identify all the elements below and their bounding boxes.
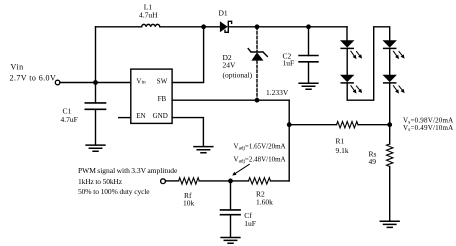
svg-text:GND: GND — [153, 112, 168, 120]
svg-text:1.60k: 1.60k — [256, 197, 273, 206]
capacitor C2 — [283, 27, 318, 83]
wire between LEDs string2 — [389, 48, 391, 74]
wire SW connection — [172, 27, 204, 83]
wire between LEDs string1 — [346, 48, 348, 74]
resistor Rf — [166, 178, 231, 208]
terminal PWM — [161, 179, 166, 184]
node FB/D2 junction — [255, 98, 260, 103]
node D2 junction — [255, 24, 260, 29]
label Vadj with arrow — [232, 143, 285, 176]
svg-text:49: 49 — [369, 157, 377, 166]
node Vo — [387, 122, 392, 127]
inductor L1 — [142, 24, 160, 26]
svg-text:C1: C1 — [63, 106, 72, 115]
wire Vin input — [60, 82, 131, 84]
resistor Rs — [369, 125, 393, 221]
svg-text:FB: FB — [158, 95, 167, 103]
label Vs — [403, 117, 453, 134]
wire string1 bottom to string2 riser — [347, 27, 390, 100]
wire string2 bottom to Vo node — [389, 83, 391, 125]
ground C2 — [299, 83, 318, 89]
LED D5 — [383, 40, 405, 59]
ground IC — [194, 147, 213, 153]
LED D4 — [340, 75, 362, 94]
svg-text:4.7uH: 4.7uH — [139, 11, 158, 20]
svg-text:1kHz to 50kHz: 1kHz to 50kHz — [78, 177, 123, 186]
capacitor Cf — [221, 181, 256, 237]
wire FB horizontal — [172, 99, 289, 101]
node Vin/C1 junction — [93, 80, 98, 85]
resistor R1 — [289, 122, 390, 156]
resistor R2 — [231, 178, 290, 207]
svg-text:PWM signal with 3.3V amplitude: PWM signal with 3.3V amplitude — [78, 166, 178, 175]
svg-text:24V: 24V — [223, 60, 237, 69]
svg-text:EN: EN — [136, 112, 145, 120]
svg-text:SW: SW — [157, 78, 168, 86]
node C2 junction — [306, 24, 311, 29]
wire top rail left — [96, 26, 142, 28]
node FB corner — [287, 122, 292, 127]
svg-text:R1: R1 — [336, 137, 345, 146]
wire FB vertical — [288, 100, 290, 181]
svg-text:2.7V to 6.0V: 2.7V to 6.0V — [10, 73, 57, 82]
label Vin — [10, 63, 57, 83]
svg-text:50% to 100% duty cycle: 50% to 100% duty cycle — [78, 187, 150, 196]
wire top rail middle — [160, 26, 221, 28]
wire top rail right — [228, 26, 347, 28]
svg-text:1.233V: 1.233V — [266, 88, 289, 97]
wire EN stub — [119, 117, 131, 119]
svg-text:(optional): (optional) — [223, 71, 253, 80]
svg-text:Vs=0.49V/10mA: Vs=0.49V/10mA — [403, 124, 453, 133]
ground Rs — [380, 221, 399, 227]
diode D1 — [219, 9, 232, 33]
wire left vertical to top rail — [95, 27, 97, 83]
label PWM — [78, 166, 178, 196]
wire GND to ground — [172, 118, 203, 147]
ground C1 — [86, 145, 105, 151]
svg-text:1uF: 1uF — [283, 59, 295, 68]
node Vadj — [228, 179, 233, 184]
wire LED string1 top drop — [346, 27, 348, 41]
zener diode D2 (optional) — [223, 27, 268, 100]
svg-text:Vin: Vin — [136, 78, 146, 86]
LED D3 — [340, 40, 362, 59]
svg-text:Vin: Vin — [11, 63, 24, 72]
svg-text:D1: D1 — [219, 9, 228, 18]
LED D6 — [383, 75, 405, 94]
svg-text:9.1k: 9.1k — [336, 146, 349, 155]
svg-text:4.7uF: 4.7uF — [61, 115, 78, 124]
svg-text:10k: 10k — [183, 199, 195, 208]
ground Cf — [221, 238, 240, 244]
terminal Vin — [55, 80, 60, 85]
IC U1 boost converter — [131, 69, 172, 123]
node SW/L1/D1 junction — [201, 24, 206, 29]
capacitor C1 — [61, 83, 106, 146]
svg-text:1uF: 1uF — [244, 219, 256, 228]
